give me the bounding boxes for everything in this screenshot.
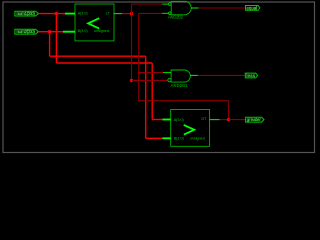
- wire num2 into B pin of lower comparator: [146, 137, 163, 139]
- wire GT right vertical: [228, 101, 230, 120]
- svg-text:unsigned: unsigned: [94, 29, 109, 33]
- svg-text:A(3:0): A(3:0): [174, 118, 184, 122]
- wire GT bottom horizontal: [139, 100, 229, 102]
- wire GT to output port: [229, 119, 246, 121]
- wire GT to U3 inverted input: [139, 12, 162, 14]
- pin B(3:0) stub U1: [63, 31, 75, 33]
- wire LT top horizontal to U3 input: [132, 3, 163, 5]
- node LT lower junction: [130, 79, 133, 82]
- wire num1 into A pin of lower comparator: [152, 119, 162, 121]
- output port greater: [246, 117, 264, 122]
- node GT junction: [227, 118, 230, 121]
- svg-text:B(3:0): B(3:0): [174, 137, 184, 141]
- svg-text:GT: GT: [201, 117, 207, 121]
- pin LT stub U1: [114, 13, 123, 15]
- wire LT to U4 inverted input: [132, 79, 168, 81]
- svg-text:num1(3:0): num1(3:0): [16, 11, 35, 16]
- node num1 junction: [55, 12, 58, 15]
- output port less: [245, 73, 257, 78]
- comparator U2 greater-than block: [171, 110, 210, 147]
- wire num1 vertical to lower comparator: [151, 63, 153, 120]
- svg-text:B(3:0): B(3:0): [78, 29, 88, 33]
- wire num2 horizontal run: [50, 55, 146, 57]
- svg-text:num2(3:0): num2(3:0): [16, 29, 35, 34]
- and gate U4 AND2B1: [168, 70, 190, 88]
- pin B(3:0) stub U2: [162, 137, 170, 139]
- wire num1 port to A pin: [38, 13, 65, 15]
- wire LT up: [131, 4, 133, 14]
- pin stub U3 output: [191, 7, 199, 9]
- svg-text:AND2B1: AND2B1: [171, 83, 189, 88]
- svg-text:unsigned: unsigned: [190, 137, 205, 141]
- svg-text:AND2B2: AND2B2: [168, 15, 184, 20]
- pin A(3:0) stub U2: [163, 119, 171, 121]
- pin stub U3 input 1: [162, 3, 168, 5]
- wire num2 port to B pin: [38, 31, 63, 33]
- wire num2 vertical to lower comparator: [145, 56, 147, 138]
- wire num1 vertical drop: [55, 14, 57, 63]
- node num2 junction: [48, 30, 51, 33]
- pin stub U3 input 2: [162, 12, 168, 14]
- svg-text:greater: greater: [247, 117, 262, 122]
- input port num1(3:0): [15, 11, 39, 16]
- wire GT to U4 input: [139, 72, 163, 74]
- svg-text:A(3:0): A(3:0): [78, 12, 88, 16]
- wire GT vertical main: [138, 13, 140, 100]
- pin stub U4 output: [190, 74, 198, 76]
- wire num2 vertical drop: [49, 32, 51, 57]
- wire num1 horizontal run: [56, 62, 152, 64]
- comparator U1 less-than block: [75, 4, 114, 41]
- svg-text:less: less: [246, 73, 255, 78]
- pin stub U4 input 1: [163, 72, 171, 74]
- wire LT down: [131, 14, 133, 81]
- wire GT stub to junction: [220, 119, 229, 121]
- pin GT stub U2: [210, 119, 220, 121]
- wire eq to output port: [199, 7, 246, 9]
- wire less to output port: [198, 74, 245, 76]
- svg-text:equal: equal: [247, 5, 258, 10]
- input port num2(3:0): [15, 29, 39, 34]
- wire LT output to junction: [122, 13, 132, 15]
- pin A(3:0) stub U1: [65, 13, 75, 15]
- output port equal: [246, 5, 260, 10]
- and gate U3 AND2B2: [168, 1, 191, 19]
- node LT junction: [130, 12, 133, 15]
